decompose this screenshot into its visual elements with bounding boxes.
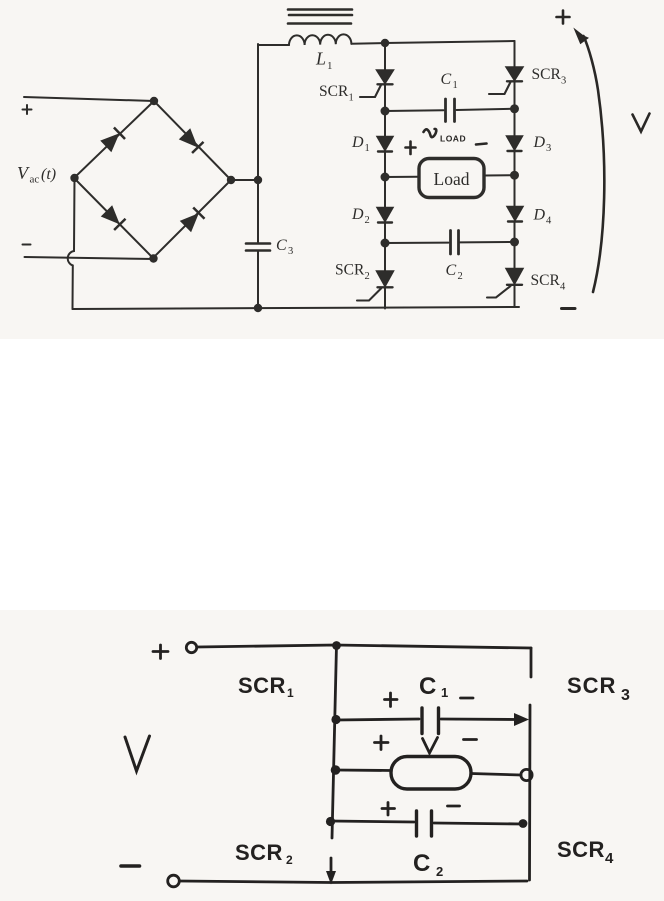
svg-text:SCR: SCR — [531, 272, 561, 289]
svg-text:4: 4 — [546, 216, 552, 227]
svg-text:SCR: SCR — [235, 840, 283, 865]
svg-text:C: C — [441, 71, 452, 88]
svg-text:1: 1 — [287, 686, 294, 700]
svg-text:3: 3 — [288, 246, 293, 257]
svg-text:3: 3 — [546, 143, 551, 154]
svg-text:2: 2 — [365, 215, 370, 226]
svg-text:SCR: SCR — [567, 673, 616, 698]
svg-text:1: 1 — [327, 60, 333, 72]
svg-text:SCR: SCR — [319, 83, 349, 100]
svg-text:C: C — [419, 673, 436, 700]
svg-text:1: 1 — [365, 143, 370, 154]
svg-text:SCR: SCR — [335, 262, 365, 279]
svg-text:ac: ac — [30, 174, 40, 186]
svg-text:D: D — [533, 207, 546, 224]
svg-text:1: 1 — [453, 80, 458, 91]
svg-text:2: 2 — [458, 271, 463, 282]
svg-text:Load: Load — [434, 169, 470, 189]
svg-text:2: 2 — [286, 853, 293, 867]
svg-text:3: 3 — [561, 76, 566, 87]
svg-text:3: 3 — [621, 687, 630, 704]
svg-text:2: 2 — [436, 864, 443, 879]
svg-text:LOAD: LOAD — [440, 134, 466, 144]
svg-text:SCR: SCR — [238, 673, 286, 698]
svg-text:C: C — [446, 262, 457, 279]
svg-text:SCR: SCR — [557, 837, 605, 862]
svg-text:2: 2 — [365, 271, 370, 282]
svg-text:L: L — [315, 49, 326, 69]
svg-text:D: D — [351, 206, 364, 223]
svg-text:D: D — [533, 134, 546, 151]
svg-text:4: 4 — [605, 850, 614, 867]
svg-text:1: 1 — [349, 93, 354, 104]
svg-text:1: 1 — [441, 685, 448, 700]
svg-text:D: D — [351, 134, 364, 151]
svg-text:SCR: SCR — [532, 66, 562, 83]
svg-text:C: C — [413, 850, 430, 877]
svg-text:4: 4 — [560, 282, 566, 293]
svg-text:(t): (t) — [41, 166, 56, 183]
svg-text:C: C — [276, 237, 287, 254]
